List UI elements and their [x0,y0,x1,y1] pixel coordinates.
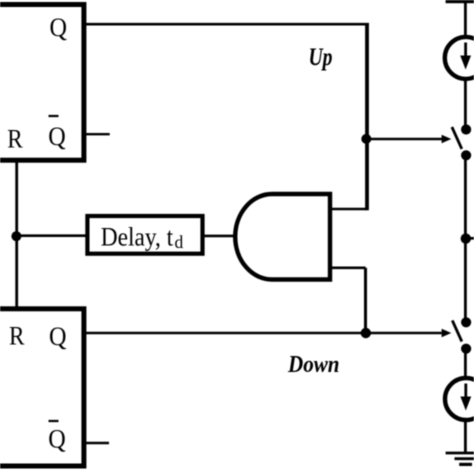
switch S1 top terminal dot [461,124,471,134]
arrow inside I2 [464,384,467,403]
wire AND gate bottom input stub [330,266,366,269]
wire Qbar stub (FF1) [84,133,110,135]
wire AND gate top input stub (from Up line) [330,208,367,211]
arrowhead of Up control [442,135,452,144]
current source I2 (bottom, circle) [445,378,474,420]
current source I1 (top, circle) [445,37,474,79]
wire output stub to right edge [466,237,474,240]
arrowhead of Down control [442,329,452,338]
wire reset line: FF1 R down left column [15,160,18,309]
delay box [87,216,202,254]
wire S2 to current source I2 [464,349,467,378]
svg-text:Q: Q [48,424,66,454]
flip-flop FF2 (bottom) [0,309,84,466]
wire Up: FF1 Q output horizontal [84,23,369,26]
svg-text:Q: Q [49,321,67,351]
svg-text:Up: Up [309,42,333,71]
switch S2 top terminal dot [461,317,471,327]
svg-text:R: R [9,320,25,350]
switch S1 bottom terminal dot [461,150,471,160]
switch S2 lever (Down switch) [452,320,462,341]
wire I2 to ground [464,420,467,453]
wire I1 to switch S1 [464,80,467,130]
node: Down junction dot [361,328,371,338]
overbar of Qbar (FF1) [49,115,59,117]
svg-text:Q: Q [48,121,66,151]
overbar of Qbar (FF2) [49,420,59,422]
arrow inside I1 [464,43,467,62]
node: Up junction dot [361,134,371,144]
flip-flop FF1 (top) [0,5,84,161]
power rail (VDD bar, top right) [446,0,474,3]
switch S1 lever (Up switch) [452,127,462,149]
wire rail to current source I1 [464,2,467,36]
node: reset junction dot [11,231,21,241]
svg-text:Down: Down [287,352,339,378]
wire reset junction to delay box input [16,234,87,237]
svg-text:Q: Q [50,12,68,42]
switch S2 bottom terminal dot [461,344,471,354]
wire Up control branch to switch [366,138,443,141]
svg-text:d: d [175,232,184,252]
node: charge-pump output junction dot [461,233,471,243]
wire Down: FF2 Q output horizontal to switch [84,332,442,335]
svg-text:R: R [7,123,23,153]
svg-text:Delay, t: Delay, t [101,222,174,252]
ground symbol [446,452,474,455]
AND gate U1 (mirrored, output faces left) [235,194,330,280]
wire S1 to S2 (output node column) [464,155,467,322]
wire Up: vertical drop to AND gate input [365,23,369,210]
wire Qbar stub (FF2) [84,442,109,444]
wire delay box output to AND gate [203,235,237,238]
wire vertical branch from Down line up to AND input [364,268,367,333]
